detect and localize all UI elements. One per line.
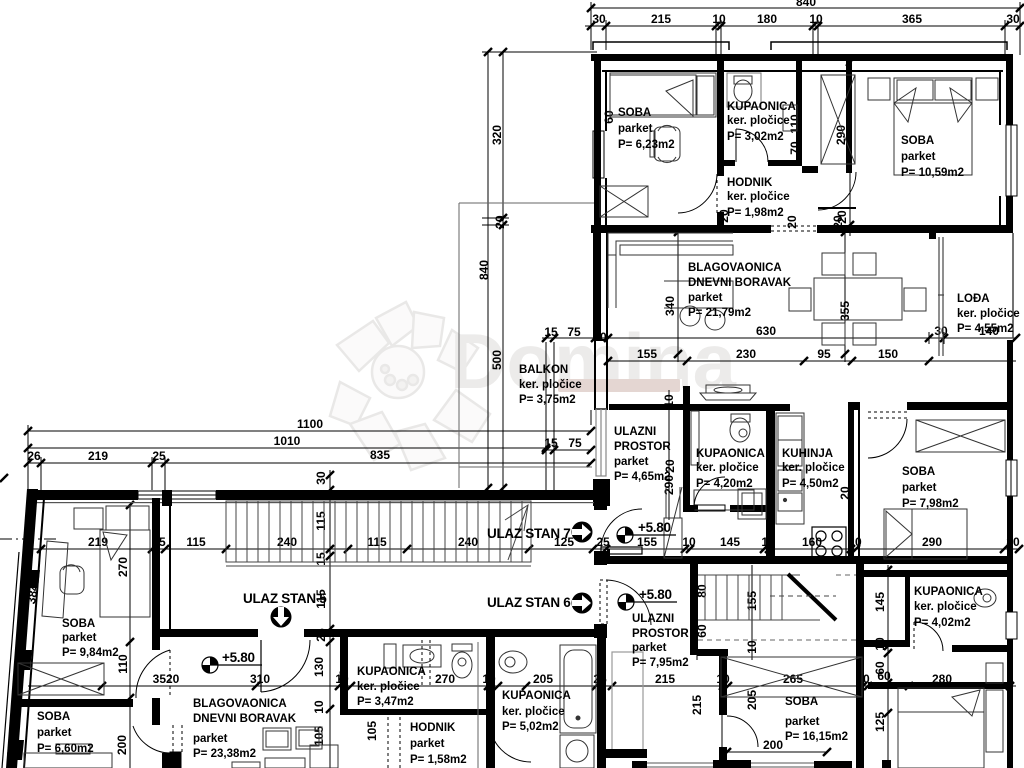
kupaonica 3,47 bbox=[357, 666, 426, 708]
corridor right wall x594-607 with stan7/stan6 doors bbox=[594, 498, 607, 632]
soba 16,15 left wall bbox=[719, 655, 727, 768]
svg-text:200: 200 bbox=[115, 735, 129, 755]
level marker +5.80 (stan7) bbox=[617, 520, 676, 543]
svg-text:ker. pločice: ker. pločice bbox=[696, 462, 759, 474]
bottom edge wall stubs bbox=[632, 760, 891, 768]
watermark wordmark bbox=[450, 317, 737, 405]
soba 6,23 wardrobe X bbox=[600, 186, 648, 217]
hodnik bottom bbox=[410, 722, 467, 766]
svg-text:SOBA: SOBA bbox=[618, 107, 651, 119]
kupaonica 3,47 sink bbox=[384, 644, 396, 668]
svg-text:75: 75 bbox=[567, 325, 581, 339]
svg-text:115: 115 bbox=[314, 511, 328, 531]
svg-text:30: 30 bbox=[934, 324, 948, 338]
soba 16,15 wardrobe X bbox=[721, 657, 862, 697]
svg-text:155: 155 bbox=[637, 347, 657, 361]
svg-text:BLAGOVAONICA: BLAGOVAONICA bbox=[688, 262, 782, 274]
svg-text:parket: parket bbox=[632, 642, 667, 654]
bottom chain y686 bbox=[28, 685, 1016, 687]
shaft closet ulazni prostor bbox=[664, 487, 682, 558]
svg-text:145: 145 bbox=[873, 592, 887, 612]
corridor chain y549 bbox=[28, 548, 1020, 550]
svg-text:215: 215 bbox=[651, 12, 671, 26]
stairwell left wall x690 bbox=[690, 563, 698, 655]
door stan7 entry bbox=[601, 509, 642, 554]
soba 9,84 left bbox=[62, 618, 119, 659]
svg-text:P= 3,75m2: P= 3,75m2 bbox=[519, 394, 576, 406]
svg-text:1010: 1010 bbox=[274, 434, 301, 448]
door soba 6,60 bbox=[133, 725, 182, 768]
arrow stan 5 down bbox=[271, 607, 292, 628]
ulazni prostor 4,65 bbox=[614, 426, 671, 483]
hodnik bottom dashes bbox=[388, 640, 430, 768]
svg-text:270: 270 bbox=[116, 557, 130, 577]
svg-text:75: 75 bbox=[568, 436, 582, 450]
diagonal balcony edge left bbox=[2, 552, 25, 768]
svg-text:25: 25 bbox=[152, 449, 166, 463]
corridor stair treads bbox=[226, 501, 531, 566]
corridor top window bbox=[138, 491, 216, 499]
svg-text:130: 130 bbox=[312, 657, 326, 677]
svg-text:KUPAONICA: KUPAONICA bbox=[914, 586, 983, 598]
svg-text:P= 6,60m2: P= 6,60m2 bbox=[37, 743, 94, 755]
svg-text:parket: parket bbox=[902, 482, 937, 494]
svg-text:P= 16,15m2: P= 16,15m2 bbox=[785, 731, 848, 743]
stove bbox=[812, 527, 846, 559]
svg-text:parket: parket bbox=[785, 716, 820, 728]
svg-text:P= 9,84m2: P= 9,84m2 bbox=[62, 647, 119, 659]
kupaonica/hodnik wall + door opening bbox=[717, 60, 802, 166]
svg-text:10: 10 bbox=[809, 12, 823, 26]
blagovaonica 23,38 bbox=[193, 698, 297, 760]
right wall along loda bbox=[1012, 233, 1014, 338]
kupaonica 4,20 bbox=[696, 448, 765, 490]
loda left wall bbox=[938, 237, 944, 356]
svg-text:HODNIK: HODNIK bbox=[727, 177, 773, 189]
svg-text:ULAZ STAN 6: ULAZ STAN 6 bbox=[487, 595, 571, 610]
top chain ticks bbox=[587, 4, 1024, 30]
left soba 6,60 bed bbox=[24, 744, 112, 768]
svg-text:KUPAONICA: KUPAONICA bbox=[727, 101, 796, 113]
svg-text:15: 15 bbox=[314, 552, 328, 566]
lower stairwell treads bbox=[698, 575, 820, 620]
dim extension line x478 bbox=[477, 642, 479, 768]
svg-text:ULAZNI: ULAZNI bbox=[614, 426, 656, 438]
svg-text:P= 23,38m2: P= 23,38m2 bbox=[193, 748, 256, 760]
level marker +5.80 (stan6) bbox=[618, 587, 677, 610]
right exterior wall bottom bbox=[1007, 611, 1013, 768]
door stan6 entry bbox=[600, 580, 651, 625]
svg-text:PROSTOR: PROSTOR bbox=[614, 441, 671, 453]
kupaonica 5,02 bathtub bbox=[560, 645, 596, 733]
door soba1 left room bbox=[136, 650, 170, 698]
svg-text:parket: parket bbox=[688, 292, 723, 304]
door kupaonica 4,02 bbox=[914, 622, 943, 651]
left soba 9,84 wardrobe X bbox=[18, 663, 104, 695]
balkon corner wall piece bbox=[593, 479, 610, 506]
corridor top wall bbox=[27, 490, 594, 503]
kupaonica 3,47 toilet bbox=[452, 644, 472, 678]
svg-text:SOBA: SOBA bbox=[62, 618, 95, 630]
left room / corridor wall x162 bbox=[152, 498, 172, 768]
soba 10,59 bbox=[901, 135, 964, 179]
kuhinja 4,50 bbox=[782, 448, 845, 490]
mid chains 1100 / 1010 / 26+219+25+835 bbox=[28, 342, 591, 492]
soba 6,23 bed bbox=[610, 73, 716, 117]
blagovaonica 21,79 bbox=[688, 262, 792, 319]
svg-text:parket: parket bbox=[410, 738, 445, 750]
svg-text:10: 10 bbox=[712, 12, 726, 26]
svg-text:parket: parket bbox=[618, 123, 653, 135]
left soba 9,84 bed bbox=[100, 530, 150, 617]
door hodnik->kupaonica bottom bbox=[489, 720, 531, 762]
svg-text:ULAZ STAN 5: ULAZ STAN 5 bbox=[243, 591, 327, 606]
svg-text:155: 155 bbox=[745, 591, 759, 611]
inner wall lines top apartment bbox=[602, 71, 1003, 232]
svg-text:205: 205 bbox=[745, 690, 759, 710]
window right soba 7,98 bbox=[1006, 460, 1017, 496]
svg-text:P= 5,02m2: P= 5,02m2 bbox=[502, 721, 559, 733]
svg-text:20: 20 bbox=[493, 215, 507, 229]
svg-text:+5.80: +5.80 bbox=[638, 520, 671, 535]
balkon window below bbox=[596, 409, 606, 476]
svg-text:BLAGOVAONICA: BLAGOVAONICA bbox=[193, 698, 287, 710]
kupaonica 3,47 shower bbox=[403, 645, 441, 667]
dash-dot reference lines bbox=[0, 539, 1010, 562]
left soba 9,84 chair bbox=[60, 565, 84, 594]
svg-text:205: 205 bbox=[533, 672, 553, 686]
soba 16,15 bbox=[785, 696, 848, 743]
kupaonica 3,02 bbox=[727, 101, 796, 143]
svg-text:219: 219 bbox=[88, 535, 108, 549]
svg-text:95: 95 bbox=[817, 347, 831, 361]
washing machine bbox=[560, 735, 594, 768]
svg-text:parket: parket bbox=[901, 151, 936, 163]
kupaonica 4,20 washbasin cabinet bbox=[738, 489, 766, 519]
svg-text:840: 840 bbox=[796, 0, 816, 9]
svg-text:270: 270 bbox=[435, 672, 455, 686]
svg-text:290: 290 bbox=[922, 535, 942, 549]
window left wall soba 6,23 bbox=[593, 131, 604, 178]
blagovaonica left exterior wall bbox=[593, 233, 601, 340]
svg-text:KUPAONICA: KUPAONICA bbox=[357, 666, 426, 678]
svg-text:320: 320 bbox=[490, 125, 504, 145]
bottom rooms walls (left of stairwell) bbox=[340, 629, 606, 768]
svg-text:P= 3,02m2: P= 3,02m2 bbox=[727, 131, 784, 143]
stair section cut diagonal bbox=[788, 574, 836, 620]
svg-text:ker. pločice: ker. pločice bbox=[502, 706, 565, 718]
top total 840 line bbox=[591, 7, 1020, 9]
corridor bottom wall y630 bbox=[160, 627, 607, 638]
svg-text:215: 215 bbox=[690, 695, 704, 715]
soba 7,98 bbox=[902, 466, 959, 510]
svg-text:P= 1,98m2: P= 1,98m2 bbox=[727, 207, 784, 219]
bottom right soba bed bbox=[898, 663, 1003, 768]
svg-text:SOBA: SOBA bbox=[901, 135, 934, 147]
watermark logo flower bbox=[330, 302, 490, 470]
soba 10,59 bed bbox=[894, 78, 972, 175]
svg-text:150: 150 bbox=[878, 347, 898, 361]
kupaonica 5,02 toilet bbox=[499, 651, 527, 673]
watermark subtitle band bbox=[558, 379, 682, 392]
vertical chain x330 (30/115/15/115/25/130/105) bbox=[329, 470, 331, 768]
balkon bbox=[519, 364, 582, 406]
svg-text:30: 30 bbox=[592, 12, 606, 26]
svg-text:P= 7,95m2: P= 7,95m2 bbox=[632, 657, 689, 669]
svg-text:P= 4,20m2: P= 4,20m2 bbox=[696, 478, 753, 490]
kupaonica 4,02 sink bbox=[974, 589, 996, 607]
svg-text:10: 10 bbox=[745, 640, 759, 654]
svg-text:ker. pločice: ker. pločice bbox=[519, 379, 582, 391]
svg-text:ker. pločice: ker. pločice bbox=[357, 681, 420, 693]
left soba 9,84 desk + wardrobe bbox=[74, 506, 149, 530]
svg-text:115: 115 bbox=[367, 535, 387, 549]
arrow stan 7 bbox=[572, 522, 593, 543]
svg-text:BALKON: BALKON bbox=[519, 364, 568, 376]
svg-text:15: 15 bbox=[544, 436, 558, 450]
svg-text:340: 340 bbox=[663, 296, 677, 316]
door corridor->blagovaonica 23,38 bbox=[261, 640, 310, 692]
closet ulazni prostor 7,95 bbox=[612, 652, 643, 755]
door soba 16,15 bbox=[722, 715, 758, 747]
top exterior wall band bbox=[591, 54, 1013, 233]
200 dim at soba 16,15 bbox=[727, 751, 827, 753]
ulazni prostor 7,95 bbox=[632, 613, 689, 669]
balkon 15/75 lower chain bbox=[542, 449, 591, 451]
dining table bbox=[789, 253, 926, 345]
balcony outline upper-left bbox=[459, 203, 594, 488]
wall y405 row (stan6 top) bbox=[609, 386, 1013, 560]
balkon door (dark frame) bbox=[595, 340, 607, 409]
kupaonica 4,02 walls bbox=[864, 570, 1013, 652]
svg-text:26: 26 bbox=[27, 449, 41, 463]
door soba 7,98 (dashed opening + arc) bbox=[868, 412, 907, 458]
hodnik 1,98 bbox=[727, 177, 790, 219]
svg-text:DNEVNI BORAVAK: DNEVNI BORAVAK bbox=[193, 713, 297, 725]
svg-text:P= 4,50m2: P= 4,50m2 bbox=[782, 478, 839, 490]
wall below stan7 door y553-563 piece bbox=[607, 549, 610, 557]
svg-text:30: 30 bbox=[1006, 12, 1020, 26]
extension verticals top chain bbox=[590, 2, 592, 50]
window right wall soba 10,59 bbox=[1006, 125, 1017, 196]
svg-text:+5.80: +5.80 bbox=[639, 587, 672, 602]
balkon 15/75 upper chain bbox=[542, 337, 608, 339]
svg-text:parket: parket bbox=[62, 632, 97, 644]
door kupaonica 4,20 bbox=[694, 477, 725, 511]
svg-text:20: 20 bbox=[785, 215, 799, 229]
soba 7,98 bed bbox=[884, 509, 967, 559]
svg-text:parket: parket bbox=[193, 733, 228, 745]
svg-text:310: 310 bbox=[250, 672, 270, 686]
svg-text:835: 835 bbox=[370, 448, 390, 462]
shaft wardrobe X tall bbox=[821, 75, 855, 164]
left rooms: wall between sobas y699 bbox=[20, 699, 133, 707]
wall x856 (stairwell right) bbox=[856, 563, 864, 768]
kupaonica 3,02 sink bbox=[783, 105, 797, 131]
svg-text:ker. pločice: ker. pločice bbox=[782, 462, 845, 474]
bottom edge window lines bbox=[647, 763, 814, 767]
svg-text:parket: parket bbox=[37, 727, 72, 739]
svg-text:parket: parket bbox=[614, 456, 649, 468]
svg-text:365: 365 bbox=[902, 12, 922, 26]
svg-text:30: 30 bbox=[314, 471, 328, 485]
loda step wall bbox=[929, 225, 1013, 239]
svg-text:SOBA: SOBA bbox=[902, 466, 935, 478]
svg-text:LOĐA: LOĐA bbox=[957, 293, 990, 305]
vertical chain x130 (270/110/200) bbox=[129, 505, 131, 768]
door opening dashes blag->hodnik bbox=[771, 226, 817, 231]
svg-text:105: 105 bbox=[365, 721, 379, 741]
hodnik lower walls bbox=[717, 60, 852, 233]
svg-text:ker. pločice: ker. pločice bbox=[914, 601, 977, 613]
stairwell bottom wall bbox=[697, 649, 728, 656]
level marker +5.80 (stan5) bbox=[202, 650, 262, 673]
svg-text:500: 500 bbox=[490, 350, 504, 370]
corridor left wall block bbox=[162, 490, 172, 506]
kupaonica 4,20 shower bbox=[691, 411, 754, 510]
svg-text:240: 240 bbox=[458, 535, 478, 549]
stan6 row bottom wall y553 bbox=[605, 556, 1010, 564]
svg-text:215: 215 bbox=[655, 672, 675, 686]
stair direction arrow bbox=[505, 505, 528, 560]
blagovaonica sofa L bbox=[608, 233, 733, 308]
kupaonica 4,02 bbox=[914, 586, 983, 629]
misc small vertical dims bbox=[4, 110, 852, 758]
kitchen sink unit near wall bbox=[700, 385, 756, 400]
svg-text:P= 21,79m2: P= 21,79m2 bbox=[688, 307, 751, 319]
svg-text:P= 6,23m2: P= 6,23m2 bbox=[618, 139, 675, 151]
svg-text:P= 4,55m2: P= 4,55m2 bbox=[957, 323, 1014, 335]
svg-text:15: 15 bbox=[544, 325, 558, 339]
svg-text:1100: 1100 bbox=[297, 417, 323, 431]
svg-text:ker. pločice: ker. pločice bbox=[957, 308, 1020, 320]
chain 155/230/95/150 at y361 bbox=[608, 360, 1016, 362]
soba 6,23 chair + table bbox=[650, 125, 680, 162]
svg-text:SOBA: SOBA bbox=[785, 696, 818, 708]
diagonal exterior wall left bbox=[6, 489, 38, 768]
svg-text:10: 10 bbox=[682, 535, 696, 549]
wall y684 bottom right soba top bbox=[868, 682, 1010, 689]
soba 7,98 wardrobe X bbox=[916, 420, 1005, 452]
soba 6,23 bbox=[618, 107, 675, 151]
svg-text:60: 60 bbox=[873, 661, 887, 675]
svg-text:230: 230 bbox=[736, 347, 756, 361]
svg-text:ULAZ STAN 7: ULAZ STAN 7 bbox=[487, 526, 570, 541]
top chain labels bbox=[592, 0, 1020, 26]
svg-text:DNEVNI BORAVAK: DNEVNI BORAVAK bbox=[688, 277, 792, 289]
svg-text:KUPAONICA: KUPAONICA bbox=[696, 448, 765, 460]
kupaonica 4,20 bottom wall + door bbox=[690, 505, 775, 512]
chain 630/30/140 at y338 bbox=[608, 332, 1016, 344]
wall below top rooms y225 bbox=[591, 225, 1013, 233]
loda bbox=[957, 293, 1020, 335]
wall soba1/kupaonica x717 bbox=[717, 60, 724, 163]
svg-text:ULAZNI: ULAZNI bbox=[632, 613, 674, 625]
left vertical chain 840 / 320+20+500 bbox=[482, 52, 597, 492]
svg-text:HODNIK: HODNIK bbox=[410, 722, 456, 734]
svg-text:10: 10 bbox=[312, 700, 326, 714]
right apartment vertical dims bbox=[669, 60, 888, 768]
kupaonica 5,02 bbox=[502, 690, 571, 733]
blag 23,38 furniture bottom bbox=[232, 727, 338, 768]
left soba 9,84 desk along wall bbox=[42, 541, 68, 618]
svg-text:PROSTOR: PROSTOR bbox=[632, 628, 689, 640]
svg-text:ker. pločice: ker. pločice bbox=[727, 115, 790, 127]
wall piece bottom ulazni 7,95 bbox=[602, 749, 647, 758]
blagovaonica round tables bbox=[680, 306, 725, 330]
svg-text:SOBA: SOBA bbox=[37, 711, 70, 723]
svg-text:P= 3,47m2: P= 3,47m2 bbox=[357, 696, 414, 708]
svg-text:P= 10,59m2: P= 10,59m2 bbox=[901, 167, 964, 179]
svg-text:125: 125 bbox=[873, 712, 887, 732]
soba 6,60 left bottom bbox=[37, 711, 94, 755]
svg-text:630: 630 bbox=[756, 324, 776, 338]
soba 10,59 nightstands bbox=[868, 78, 998, 100]
kuhinja counter bbox=[776, 413, 804, 524]
svg-text:219: 219 bbox=[88, 449, 108, 463]
svg-text:P= 4,02m2: P= 4,02m2 bbox=[914, 617, 971, 629]
kupaonica 4,20 toilet bbox=[730, 414, 750, 442]
door hodnik->soba2 top apt bbox=[818, 172, 856, 210]
svg-text:ker. pločice: ker. pločice bbox=[727, 191, 790, 203]
arrow stan 6 bbox=[572, 593, 593, 614]
svg-text:KUPAONICA: KUPAONICA bbox=[502, 690, 571, 702]
svg-text:115: 115 bbox=[186, 535, 206, 549]
svg-text:P= 4,65m2: P= 4,65m2 bbox=[614, 471, 671, 483]
svg-text:+5.80: +5.80 bbox=[222, 650, 255, 665]
svg-text:145: 145 bbox=[720, 535, 740, 549]
top segment chain line bbox=[585, 25, 1022, 27]
svg-text:840: 840 bbox=[477, 260, 491, 280]
svg-text:P= 7,98m2: P= 7,98m2 bbox=[902, 498, 959, 510]
svg-text:P= 1,58m2: P= 1,58m2 bbox=[410, 754, 467, 766]
door hodnik->kupaonica 3,02 bbox=[736, 129, 768, 162]
door hodnik->soba1 top apt bbox=[678, 174, 717, 213]
svg-text:200: 200 bbox=[763, 738, 783, 752]
svg-text:355: 355 bbox=[838, 301, 852, 321]
parapet line above top wall bbox=[593, 42, 1007, 50]
right exterior wall stan6 bbox=[1007, 340, 1013, 611]
svg-text:3520: 3520 bbox=[153, 672, 180, 686]
kupaonica 3,02 toilet bbox=[727, 73, 761, 107]
svg-text:180: 180 bbox=[757, 12, 777, 26]
svg-text:KUHINJA: KUHINJA bbox=[782, 448, 833, 460]
